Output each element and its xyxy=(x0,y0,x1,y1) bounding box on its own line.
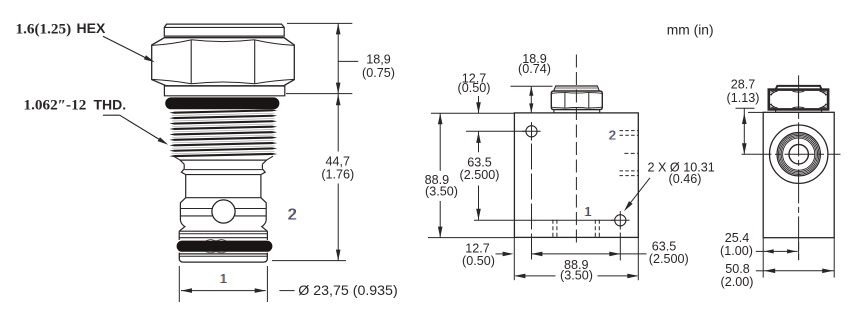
svg-text:(1.13): (1.13) xyxy=(727,91,760,105)
left view: upper O-ring seal xyxy=(165,97,279,109)
leader arrow to hex xyxy=(103,36,155,62)
dimension 25.4 (1.00) xyxy=(720,231,798,258)
svg-text:(0.74): (0.74) xyxy=(518,62,551,76)
middle view: locknut xyxy=(551,86,602,113)
middle view: mounting hole 2 xyxy=(474,211,630,260)
dimension Ø 23,75 (0.935) xyxy=(179,266,397,302)
dimension 28.7 (1.13) xyxy=(727,78,764,155)
dimension 88.9 (3.50) left xyxy=(425,113,458,237)
right view: cavity circles xyxy=(770,125,828,183)
units note mm (in) xyxy=(667,23,714,38)
extension line block top xyxy=(431,112,514,114)
middle view: hidden port lines bottom xyxy=(553,220,599,238)
extension lines below block xyxy=(514,238,638,281)
right view: body block xyxy=(763,112,834,237)
svg-text:Ø 23,75 (0.935): Ø 23,75 (0.935) xyxy=(298,283,397,299)
middle view: port 1 label xyxy=(584,205,592,219)
svg-text:2: 2 xyxy=(609,128,616,142)
svg-text:mm (in): mm (in) xyxy=(667,23,714,38)
left view: waist and nose flange xyxy=(179,220,267,240)
left view: hex head top cap xyxy=(164,24,284,36)
left view: lower O-ring seal xyxy=(177,239,273,253)
dimension 63.5 (2.500) left xyxy=(460,131,500,220)
label 2 X Ø 10.31 (0.46) xyxy=(624,160,715,211)
dimension 12.7 (0.50) top xyxy=(458,71,491,113)
left view: washer under hex xyxy=(164,86,284,96)
dimension 18,9 (0.75) xyxy=(286,23,395,93)
middle view: vertical centerline xyxy=(575,55,577,243)
svg-text:(3.50): (3.50) xyxy=(560,268,593,282)
middle view: port 2 label xyxy=(608,128,616,142)
dimension 18.9 (0.74) xyxy=(511,52,553,113)
svg-text:(1.00): (1.00) xyxy=(720,244,753,258)
svg-text:(2.500): (2.500) xyxy=(649,252,689,266)
label 1.062-12 THD. xyxy=(24,97,127,114)
label 1.6(1.25) HEX xyxy=(16,20,106,37)
svg-text:1: 1 xyxy=(220,272,227,286)
svg-text:THD.: THD. xyxy=(94,97,127,113)
middle view: body block xyxy=(514,113,638,237)
svg-text:HEX: HEX xyxy=(77,20,106,36)
leader arrow to threads xyxy=(103,115,168,145)
right view: extension lines xyxy=(763,238,834,278)
left view: port 1 label xyxy=(219,272,227,286)
dimension 44,7 (1.76) xyxy=(272,94,354,261)
svg-text:1.6(1.25): 1.6(1.25) xyxy=(16,21,72,38)
svg-text:25.4: 25.4 xyxy=(725,231,750,245)
right view: locknut xyxy=(769,86,828,112)
svg-text:(0.75): (0.75) xyxy=(362,66,395,80)
left view: port 2 label xyxy=(287,206,297,223)
svg-text:(0.46): (0.46) xyxy=(669,172,702,186)
left view: hex head xyxy=(152,38,295,86)
left view: threads xyxy=(169,109,277,157)
label 63.5 (2.500) right xyxy=(620,240,688,267)
svg-text:(2.00): (2.00) xyxy=(721,275,754,289)
svg-text:(0.50): (0.50) xyxy=(462,254,495,268)
svg-text:2: 2 xyxy=(288,206,297,223)
extension line block bottom xyxy=(428,237,514,239)
dimension 12.7 (0.50) bottom xyxy=(462,242,514,268)
dimension 88.9 (3.50) bottom xyxy=(514,252,638,283)
left view: groove band lines xyxy=(180,209,266,216)
svg-text:(0.50): (0.50) xyxy=(458,81,491,95)
left view: nose bottom xyxy=(179,253,267,263)
svg-text:(3.50): (3.50) xyxy=(425,185,458,199)
left view: body upper profile xyxy=(174,156,273,220)
dimension 50.8 (2.00) xyxy=(721,262,835,289)
svg-text:50.8: 50.8 xyxy=(725,262,750,276)
svg-text:1: 1 xyxy=(585,205,592,219)
svg-text:18,9: 18,9 xyxy=(366,52,391,66)
svg-text:28.7: 28.7 xyxy=(731,78,756,92)
svg-text:(1.76): (1.76) xyxy=(321,167,354,181)
middle view: hidden port lines right xyxy=(620,131,639,176)
svg-text:1.062″-12: 1.062″-12 xyxy=(24,97,87,114)
right view: centerlines xyxy=(742,75,841,260)
middle view: mounting hole 1 xyxy=(466,122,541,260)
svg-text:(2.500): (2.500) xyxy=(460,168,500,182)
left view: port 2 hole xyxy=(212,200,235,223)
